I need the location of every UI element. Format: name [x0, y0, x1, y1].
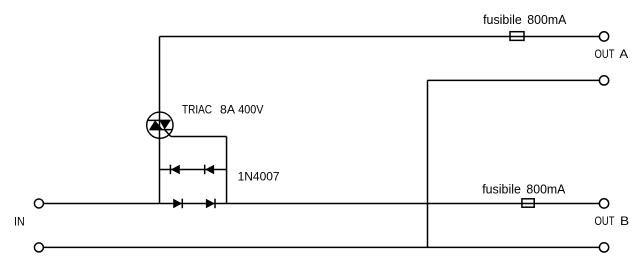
terminal OUT A bottom — [599, 76, 608, 85]
wire left vertical from top rail through triac to main line — [159, 36, 161, 203]
svg-text:OUT: OUT — [595, 47, 616, 61]
diode D3 1N4007 bottom-left (pointing right) — [173, 199, 182, 209]
wire OUT A lower branch — [428, 79, 600, 81]
svg-text:fusibile: fusibile — [483, 13, 522, 27]
fuse F1 800mA top — [510, 32, 524, 41]
label IN — [14, 215, 25, 229]
wire top diode row — [160, 168, 227, 170]
wire bottom rail — [43, 246, 599, 248]
terminal OUT B top — [599, 199, 608, 208]
label TRIAC 8A 400V — [182, 102, 264, 116]
svg-text:400V: 400V — [238, 102, 263, 116]
diode D4 1N4007 bottom-right (pointing right) — [206, 199, 215, 209]
label OUT A — [595, 47, 629, 61]
terminal IN phase — [34, 199, 43, 208]
svg-text:1N4007: 1N4007 — [238, 169, 280, 183]
fuse F2 800mA bottom — [522, 199, 534, 207]
terminal IN neutral — [34, 243, 43, 252]
wire triac gate vertical to main line — [226, 137, 228, 204]
svg-text:IN: IN — [14, 215, 25, 229]
svg-text:OUT: OUT — [595, 214, 616, 228]
svg-text:800mA: 800mA — [527, 13, 567, 27]
triac TRIAC 8A 400V — [147, 112, 173, 138]
terminal OUT A top — [599, 32, 608, 41]
label OUT B — [595, 214, 630, 228]
wire top rail to OUT A — [160, 35, 600, 37]
label fusibile 800mA (fuse F1) — [483, 13, 567, 27]
terminal OUT B bottom — [599, 243, 608, 252]
wire main line IN to OUT B — [43, 202, 599, 204]
diode D2 1N4007 top-right (pointing left) — [205, 165, 214, 175]
label fusibile 800mA (fuse F2) — [482, 182, 566, 196]
diode D1 1N4007 top-left (pointing left) — [170, 165, 179, 175]
wire vertical branch from OUT A lower to bottom rail — [427, 80, 429, 247]
svg-text:TRIAC: TRIAC — [182, 102, 212, 116]
svg-text:B: B — [620, 214, 629, 228]
wire triac gate horizontal — [171, 136, 227, 138]
svg-text:800mA: 800mA — [526, 182, 566, 196]
label 1N4007 — [238, 169, 280, 183]
svg-text:A: A — [619, 47, 628, 61]
svg-text:8A: 8A — [220, 102, 235, 116]
svg-text:fusibile: fusibile — [482, 182, 521, 196]
